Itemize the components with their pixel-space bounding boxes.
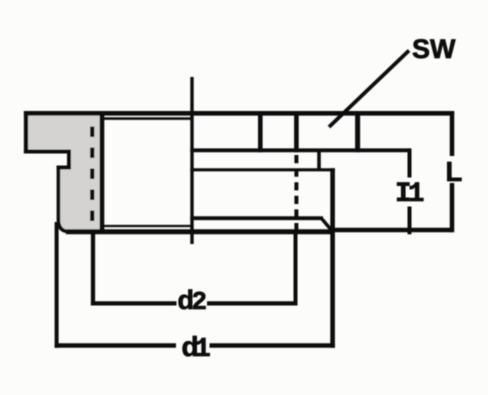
svg-text:I1: I1: [395, 179, 424, 210]
svg-text:d2: d2: [178, 285, 208, 317]
svg-text:SW: SW: [412, 34, 456, 64]
svg-text:d1: d1: [182, 331, 211, 365]
svg-text:L: L: [446, 156, 463, 187]
